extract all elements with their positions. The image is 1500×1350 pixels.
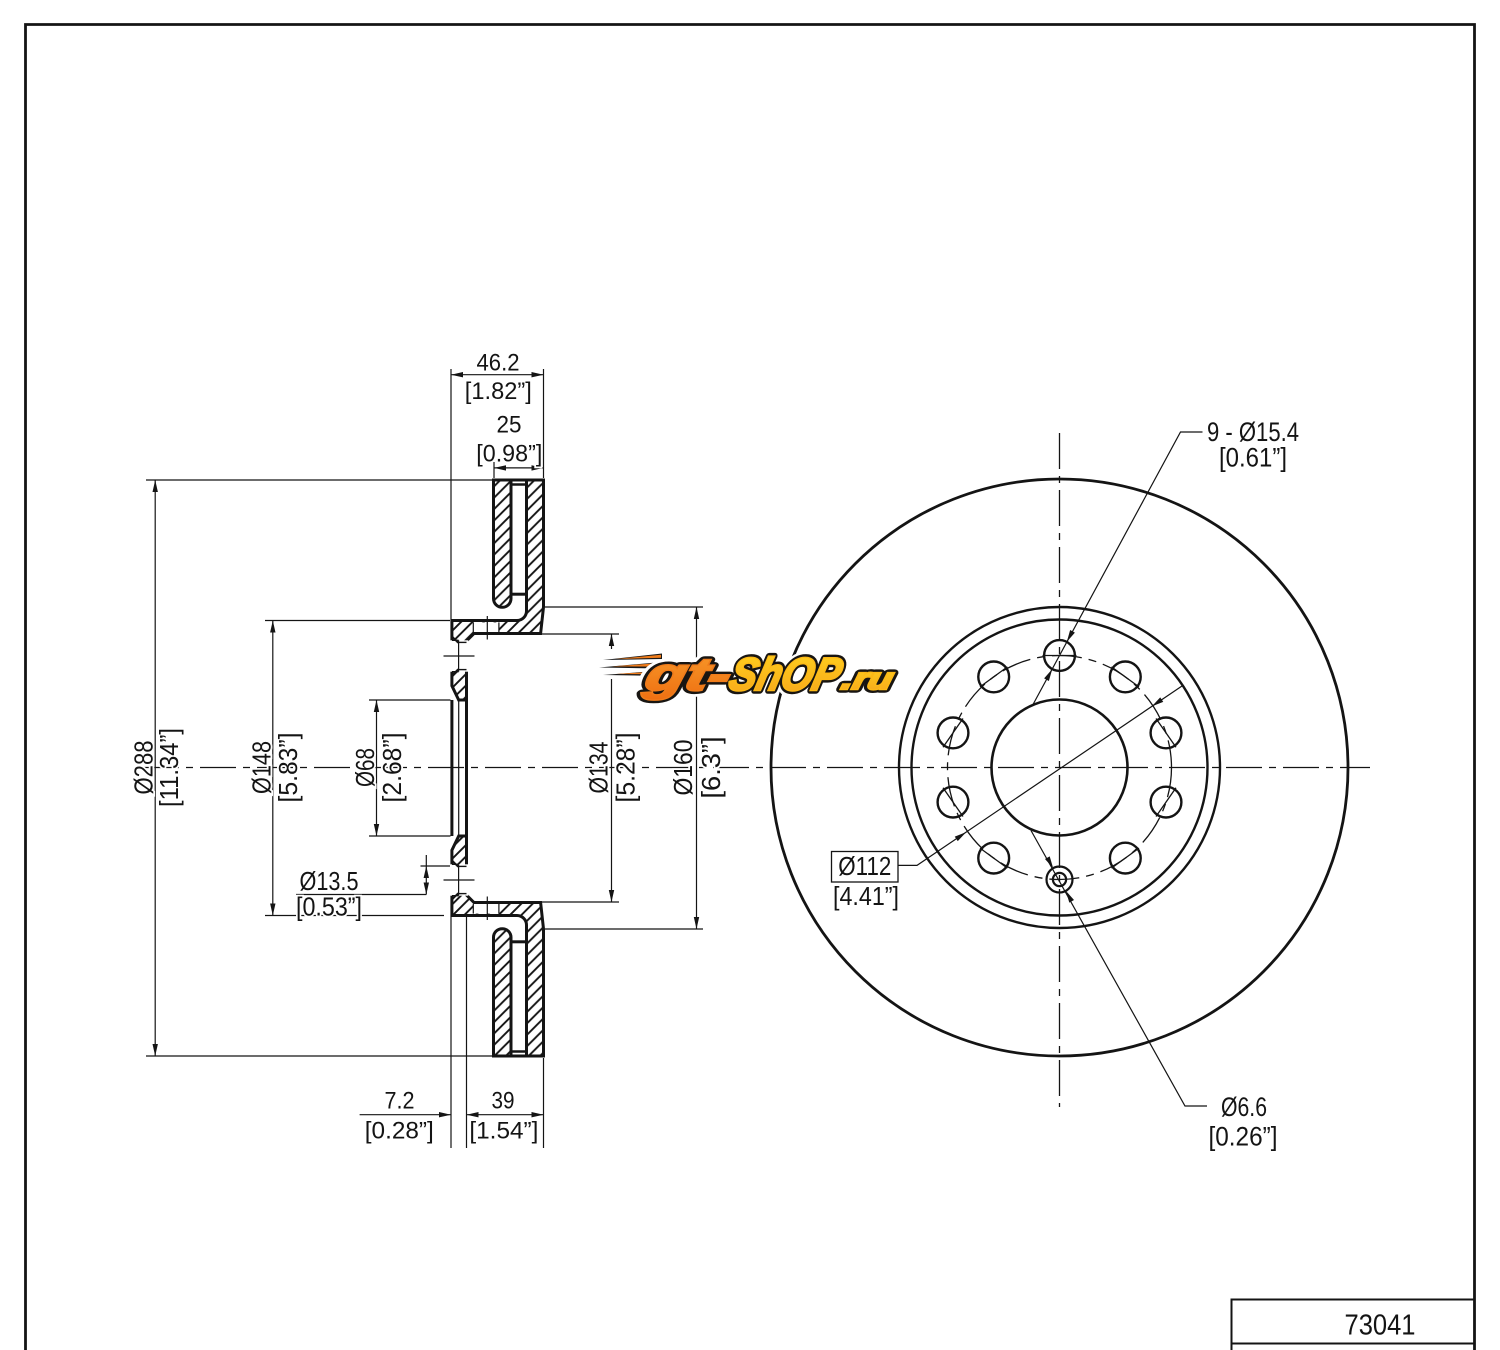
wheel bolt hole in flange (top) [449,636,468,676]
inboard friction plate (bottom) [494,929,512,1056]
svg-text:[1.54”]: [1.54”] [469,1118,538,1145]
bolt holes [938,640,1182,873]
set screw hole Ø6.6 [1047,867,1073,893]
disc OD edge top [492,479,545,482]
hole 4 [1151,787,1182,818]
vent slot opening line bottom [511,1050,527,1053]
vent slot opening line top [511,483,527,486]
Ø134 arrows [609,634,614,646]
39 arrows [467,1112,479,1117]
title block [1232,1300,1475,1350]
leader Ø6.6 [1031,831,1207,1107]
dim line Ø134 [611,634,613,902]
svg-text:gt-: gt- [639,649,737,700]
inboard friction plate (top) [494,480,512,607]
dim line 25 [494,467,544,469]
svg-text:[5.83”]: [5.83”] [273,733,303,803]
bolt hole centerline tick top [444,655,475,657]
hole 2 [1110,662,1141,693]
svg-text:Ø6.6: Ø6.6 [1221,1092,1267,1122]
svg-text:[0.98”]: [0.98”] [476,441,542,468]
dim line Ø148 [272,621,274,916]
svg-text:[0.26”]: [0.26”] [1209,1122,1278,1152]
svg-text:[1.82”]: [1.82”] [465,378,532,405]
dim line Ø288 [154,480,156,1056]
svg-text:[2.68”]: [2.68”] [377,733,407,803]
vent channel bottom line bottom [511,940,527,943]
hat step circle Ø160 [899,607,1220,928]
hole 9 [978,662,1009,693]
vertical centerline [1059,433,1061,1107]
center bore circle Ø68 [992,700,1128,836]
disc OD edge bottom [492,1055,545,1058]
bore chamfer edge line [458,700,460,836]
svg-text:Ø160: Ø160 [668,740,698,796]
svg-text:46.2: 46.2 [477,349,520,376]
ext lines Ø160 [545,606,703,608]
svg-text:[11.34”]: [11.34”] [154,728,184,807]
hole 3 [1151,718,1182,749]
logo text [639,649,901,700]
outboard plate + hat drum + flange (top) [452,480,544,700]
svg-text:[0.53”]: [0.53”] [296,892,362,922]
25 arrows [494,465,506,470]
Ø13.5 leader and ext lines [296,894,426,896]
vent channel bottom line top [511,593,527,596]
leader 9-Ø15.4 [1032,432,1202,706]
hole 7 [938,787,969,818]
svg-text:Ø68: Ø68 [350,748,380,787]
svg-text:[5.28”]: [5.28”] [610,733,640,803]
drum relief groove (bottom) [473,904,499,914]
svg-text:Ø134: Ø134 [584,742,614,794]
groove centerline tick top [486,616,488,640]
label Ø112 in box [832,852,899,883]
dim line Ø160 [696,607,698,929]
outer circle Ø288 [771,479,1348,1056]
46.2 arrows [451,372,463,377]
drum relief groove (top) [473,622,499,632]
mounting face silhouette across bore [450,700,453,836]
dim line 39 [467,1114,544,1116]
hole tangent ticks [943,656,1176,869]
bolt circle Ø112 dash-dot [948,656,1172,880]
svg-text:.ru: .ru [839,662,898,695]
svg-text:7.2: 7.2 [385,1088,415,1115]
ext verticals 46.2/25 [450,369,452,619]
svg-text:ShOP: ShOP [725,649,849,700]
groove centerline tick bottom [486,897,488,921]
Ø13.5 arrows [424,866,429,878]
Ø68 arrows [374,700,379,712]
main horizontal centerline [143,767,1370,769]
svg-text:[4.41”]: [4.41”] [833,881,899,911]
hole 8 [938,718,969,749]
ext lines Ø288 [146,479,492,481]
svg-text:25: 25 [497,412,522,439]
wheel bolt hole in flange (bottom) [449,860,468,900]
Ø288 arrows [153,480,158,492]
bolt hole centerline tick bottom [444,879,475,881]
svg-text:[0.61”]: [0.61”] [1219,443,1287,473]
svg-text:[6.3”]: [6.3”] [696,737,726,799]
dim line Ø68 [376,700,378,836]
7.2 arrow [439,1112,451,1117]
Ø160 arrows [694,607,699,619]
leader Ø112 [898,686,1182,865]
dim line 7.2 [360,1114,451,1116]
speed streaks [598,649,664,679]
svg-text:Ø112: Ø112 [838,851,891,881]
hole 6 [978,843,1009,874]
ext lines Ø68 [369,699,451,701]
ext lines Ø134 [541,633,619,635]
hole 1 (top) [1044,640,1075,671]
outboard plate + hat drum + flange (bottom) [452,836,544,1056]
hole 5 [1110,843,1141,874]
svg-text:39: 39 [492,1088,515,1115]
ext verticals 7.2/39 [450,917,452,1148]
ext lines Ø148 [265,620,450,622]
svg-text:[0.28”]: [0.28”] [365,1118,434,1145]
hat circle Ø148 [912,620,1208,916]
dim line 46.2 [451,374,544,376]
flange right face silhouette across bore [465,700,468,836]
Ø148 arrows [270,621,275,633]
svg-text:73041: 73041 [1345,1310,1416,1342]
arrowheads section [153,372,700,1117]
